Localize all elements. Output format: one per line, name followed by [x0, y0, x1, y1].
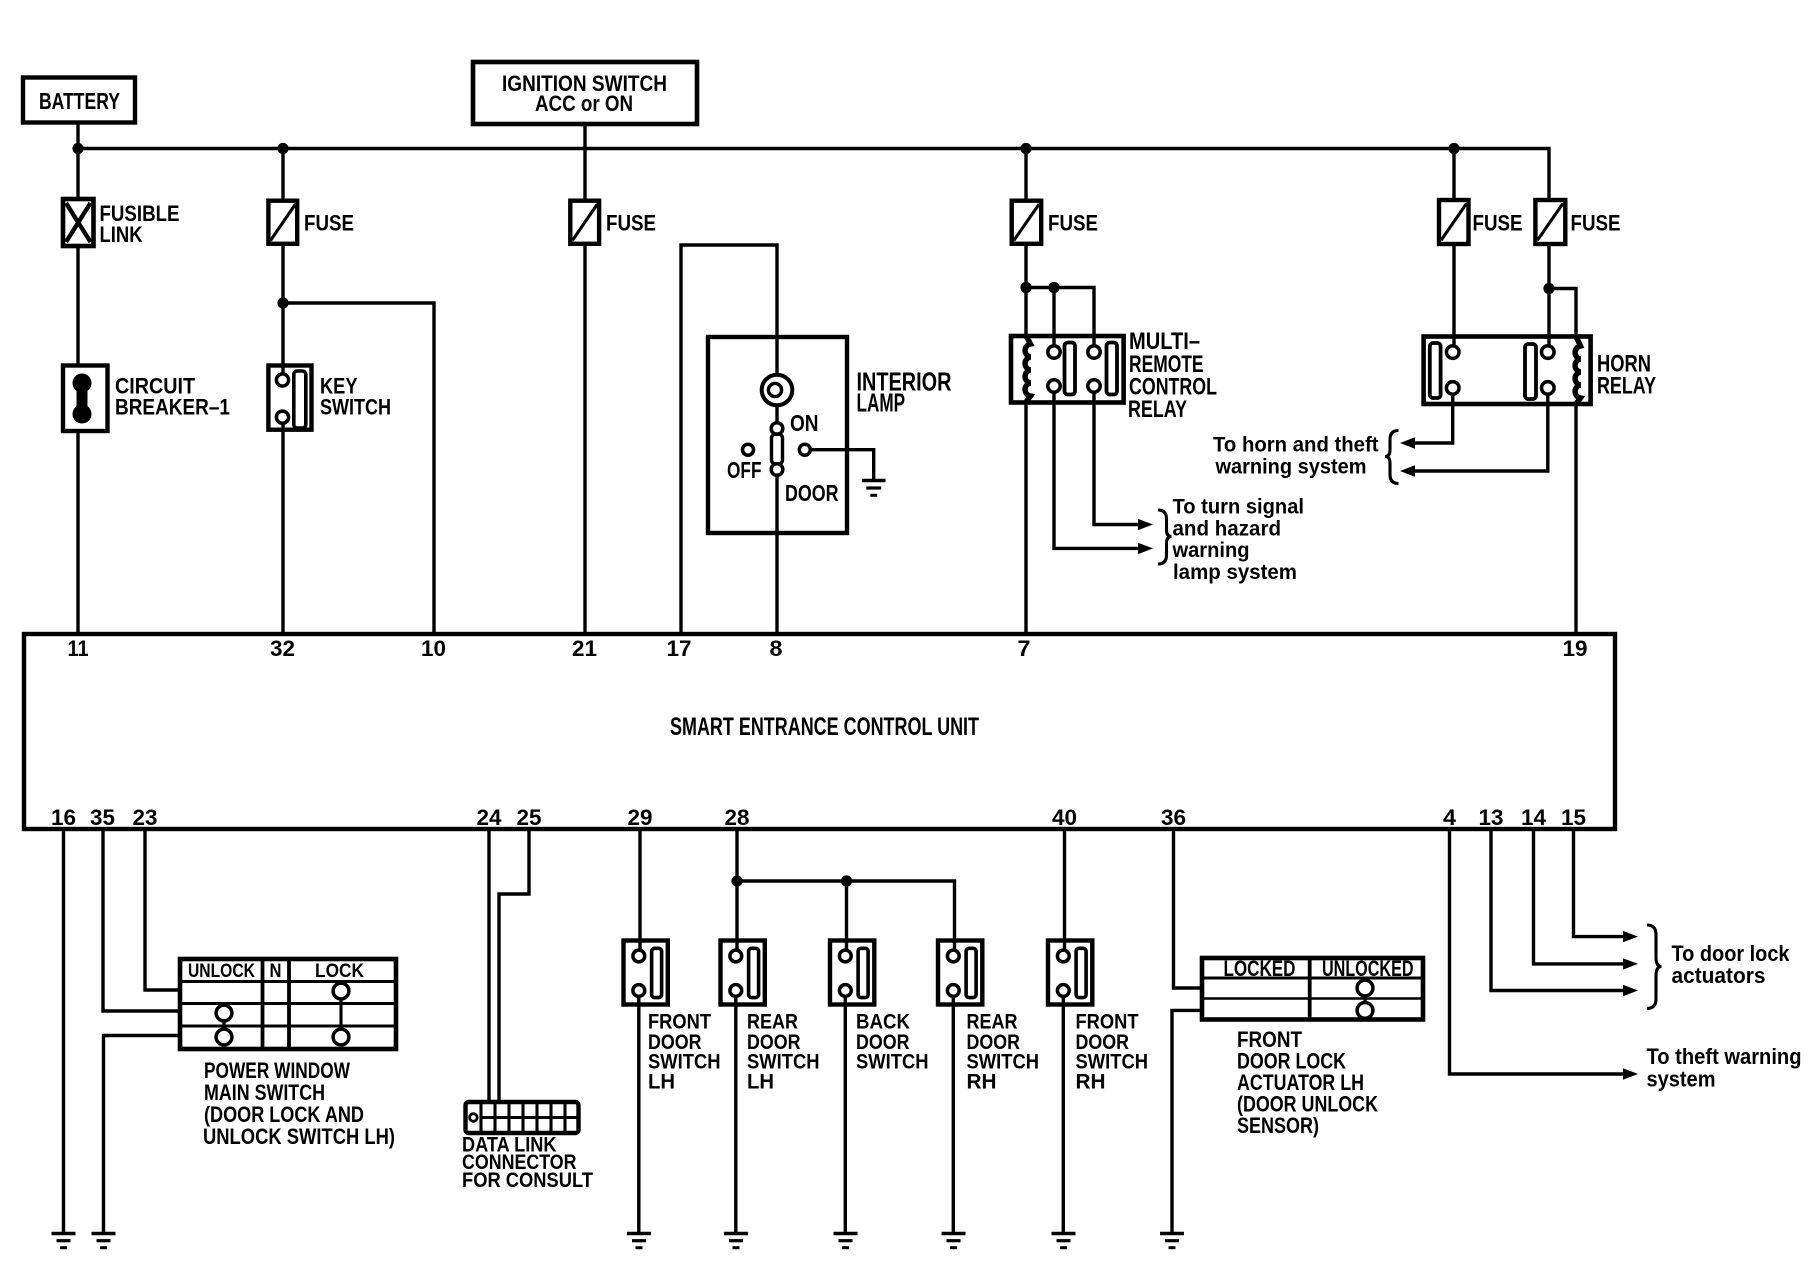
svg-text:UNLOCKED: UNLOCKED: [1322, 956, 1414, 981]
wire pin 24 to data link connector: [487, 829, 490, 1103]
label to horn and theft: [1213, 434, 1379, 479]
lamp DOOR contact: [785, 444, 839, 506]
rear door switch LH: [721, 941, 765, 1005]
multi-remote control relay: [1011, 328, 1217, 423]
arrow turn signal upper: [1138, 519, 1153, 530]
wire relay coil to pin 7: [1024, 402, 1027, 636]
svg-text:BREAKER–1: BREAKER–1: [115, 395, 230, 420]
svg-text:RH: RH: [967, 1071, 997, 1094]
brace horn warning: [1385, 431, 1399, 484]
svg-text:10: 10: [421, 636, 446, 661]
svg-text:FUSE: FUSE: [1048, 211, 1098, 236]
wire bus to fuse5: [1452, 149, 1455, 202]
wire circuit breaker to pin 11: [76, 431, 79, 636]
wire pin 17 loop to interior lamp: [681, 245, 777, 636]
label to theft warning system: [1647, 1044, 1802, 1092]
svg-text:system: system: [1647, 1067, 1716, 1092]
node fuse5 junction: [1448, 143, 1459, 154]
svg-text:32: 32: [270, 636, 295, 661]
svg-text:FUSE: FUSE: [304, 211, 354, 236]
wire fuse6 to horn relay: [1547, 244, 1550, 347]
svg-text:warning: warning: [1172, 539, 1250, 562]
wire pin 13 with arrow: [1491, 829, 1624, 991]
svg-text:LAMP: LAMP: [857, 388, 906, 418]
wire relay output 2 with arrow: [1094, 392, 1140, 525]
arrow theft warning: [1623, 1068, 1638, 1079]
svg-text:SMART ENTRANCE CONTROL UNIT: SMART ENTRANCE CONTROL UNIT: [670, 713, 979, 741]
ignition switch: [473, 62, 697, 124]
node relay branch 2: [1048, 282, 1059, 293]
wire bus to fuse4: [1024, 149, 1027, 202]
node key switch branch: [277, 297, 288, 308]
fuse F3: [570, 201, 656, 244]
data link connector for consult: [466, 1102, 579, 1133]
lamp bulb: [762, 375, 793, 406]
wire back door switch to ground: [844, 996, 847, 1233]
svg-text:RH: RH: [1076, 1071, 1106, 1094]
wire bulb to lamp switch: [775, 405, 778, 424]
svg-text:24: 24: [477, 805, 503, 830]
node door switch bus 1: [731, 875, 742, 886]
svg-text:4: 4: [1443, 805, 1457, 830]
wire horn relay output 2 with arrow: [1414, 394, 1548, 471]
wire bus to fuse2: [281, 149, 284, 202]
svg-text:FOR CONSULT: FOR CONSULT: [462, 1169, 593, 1192]
svg-text:To horn and theft: To horn and theft: [1213, 434, 1379, 457]
arrow horn lower: [1400, 465, 1415, 476]
svg-text:25: 25: [517, 805, 542, 830]
svg-text:FUSE: FUSE: [1571, 211, 1621, 236]
wire pin 29 to front door switch LH: [638, 829, 641, 951]
wire actuator row 2 to ground: [1172, 1010, 1203, 1233]
svg-text:28: 28: [725, 805, 750, 830]
svg-text:RELAY: RELAY: [1597, 373, 1656, 400]
battery: [23, 78, 135, 123]
wire horn relay output 1 with arrow: [1414, 394, 1453, 443]
svg-text:BATTERY: BATTERY: [39, 88, 120, 114]
brace door lock actuators: [1647, 925, 1662, 1008]
arrow turn signal lower: [1138, 543, 1153, 554]
arrow door lock 2: [1623, 958, 1638, 969]
wire pin 25 to data link connector: [499, 829, 529, 1103]
svg-text:LINK: LINK: [100, 222, 143, 247]
svg-text:and hazard: and hazard: [1173, 518, 1282, 541]
svg-text:35: 35: [90, 805, 115, 830]
svg-text:19: 19: [1563, 636, 1588, 661]
arrow door lock 1: [1623, 931, 1638, 942]
wire branch to pin 10: [283, 303, 434, 636]
label front door switch LH: [648, 1011, 721, 1094]
power window main switch: [180, 959, 396, 1049]
label power window main switch: [203, 1058, 395, 1149]
wire pin 36 to actuator row 1: [1174, 829, 1204, 988]
wire relay contact feed 2: [1052, 288, 1055, 348]
wire pin 40 to front door switch RH: [1063, 829, 1066, 951]
interior lamp: [708, 337, 952, 533]
wire battery to bus: [76, 123, 79, 201]
front door switch RH: [1048, 941, 1092, 1005]
label front door lock actuator: [1237, 1027, 1378, 1138]
wire front door switch LH to ground: [637, 996, 640, 1233]
wire pin 35 to switch row 2: [103, 829, 181, 1011]
wire door switch bus: [737, 881, 955, 951]
wire relay contact feeds: [1026, 288, 1094, 348]
wire ignition switch to fuse3: [583, 124, 586, 202]
wire fuse2 to key switch: [281, 244, 284, 375]
fusible link: [63, 199, 180, 247]
front door switch LH: [624, 941, 668, 1005]
wire switch row 3 to ground: [104, 1036, 182, 1234]
label front door switch RH: [1076, 1011, 1149, 1094]
ground front door switch LH: [627, 1234, 651, 1248]
svg-text:UNLOCK SWITCH LH): UNLOCK SWITCH LH): [203, 1124, 395, 1149]
node fuse2 junction: [277, 143, 288, 154]
svg-text:14: 14: [1521, 805, 1547, 830]
wire horn coil feed: [1549, 289, 1576, 339]
fuse F2: [268, 201, 354, 244]
wire fuse4 to relay coil: [1024, 244, 1027, 338]
wire pin 14 with arrow: [1534, 829, 1625, 964]
wire pin 4 with arrow: [1450, 829, 1625, 1074]
node door switch bus 2: [841, 875, 852, 886]
ground back door switch: [834, 1234, 858, 1248]
ground pin 16: [52, 1234, 76, 1248]
front door lock actuator LH: [1202, 956, 1423, 1020]
wire pin 28 to rear door switch LH: [735, 829, 738, 951]
svg-text:RELAY: RELAY: [1128, 396, 1187, 423]
rear door switch RH: [938, 941, 982, 1005]
svg-text:N: N: [270, 961, 282, 982]
svg-text:36: 36: [1161, 805, 1186, 830]
ground power window switch: [92, 1234, 116, 1248]
svg-text:FUSE: FUSE: [1473, 211, 1523, 236]
label back door switch: [856, 1011, 929, 1074]
node relay branch 1: [1020, 282, 1031, 293]
wire fusible link to circuit breaker: [76, 246, 79, 366]
svg-text:UNLOCK: UNLOCK: [188, 961, 255, 982]
wire door contact to ground: [811, 450, 874, 480]
wire fuse3 to pin 21: [583, 244, 586, 636]
svg-text:LH: LH: [747, 1071, 774, 1094]
arrow door lock 3: [1623, 985, 1638, 996]
svg-text:40: 40: [1052, 805, 1077, 830]
horn relay: [1424, 337, 1656, 405]
svg-text:ACC or ON: ACC or ON: [535, 91, 633, 116]
wire rear door switch RH to ground: [952, 996, 955, 1233]
label to turn signal: [1172, 496, 1304, 585]
label data link connector: [462, 1134, 593, 1193]
svg-text:To theft warning: To theft warning: [1647, 1044, 1802, 1069]
svg-text:actuators: actuators: [1672, 963, 1766, 988]
svg-text:21: 21: [572, 636, 597, 661]
svg-text:warning system: warning system: [1215, 456, 1367, 479]
wire pin 23 to switch row 1: [145, 829, 181, 990]
svg-text:ON: ON: [790, 410, 819, 436]
svg-text:17: 17: [667, 636, 692, 661]
wire branch to back door switch: [845, 881, 848, 951]
svg-text:8: 8: [770, 636, 783, 661]
svg-text:11: 11: [68, 636, 89, 661]
node horn coil branch: [1543, 283, 1554, 294]
svg-text:OFF: OFF: [727, 457, 762, 483]
arrow horn upper: [1400, 437, 1415, 448]
fuse F4: [1012, 201, 1098, 244]
fuse F5: [1439, 200, 1523, 244]
fuse F6: [1535, 200, 1620, 244]
svg-text:13: 13: [1479, 805, 1504, 830]
ground rear door switch RH: [942, 1234, 966, 1248]
svg-text:15: 15: [1561, 805, 1586, 830]
label rear door switch RH: [967, 1011, 1040, 1094]
ground rear door switch LH: [724, 1234, 748, 1248]
circuit breaker CB-1: [63, 366, 230, 432]
wire lamp switch to pin 8: [775, 475, 778, 636]
svg-text:LOCKED: LOCKED: [1224, 956, 1296, 981]
ground interior lamp: [862, 481, 886, 496]
wire front door switch RH to ground: [1062, 996, 1065, 1233]
wire pin 15 with arrow: [1574, 829, 1625, 937]
back door switch: [830, 941, 874, 1005]
wire rear door switch LH to ground: [734, 996, 737, 1233]
svg-text:lamp system: lamp system: [1173, 561, 1297, 584]
wire horn coil to pin 19: [1574, 404, 1577, 636]
svg-text:SENSOR): SENSOR): [1237, 1113, 1319, 1138]
smart entrance control unit U1: [24, 634, 1615, 829]
wire main supply bus: [78, 149, 1549, 202]
svg-text:LOCK: LOCK: [315, 961, 364, 982]
svg-text:To turn signal: To turn signal: [1173, 496, 1305, 519]
wire key switch to pin 32: [281, 423, 284, 636]
svg-text:29: 29: [628, 805, 653, 830]
svg-text:DOOR: DOOR: [785, 480, 839, 506]
svg-text:LH: LH: [648, 1071, 675, 1094]
wire fuse5 to horn relay: [1452, 244, 1455, 347]
ground door lock actuator: [1160, 1234, 1184, 1248]
label rear door switch LH: [747, 1011, 820, 1094]
lamp OFF contact: [727, 444, 762, 483]
svg-text:SWITCH: SWITCH: [856, 1051, 929, 1074]
node fuse4 junction: [1020, 143, 1031, 154]
key switch: [268, 366, 391, 430]
wire pin 16 to ground: [62, 829, 65, 1233]
wire relay output 1 with arrow: [1054, 392, 1140, 548]
ground front door switch RH: [1052, 1234, 1076, 1248]
svg-text:23: 23: [133, 805, 158, 830]
svg-text:16: 16: [51, 805, 76, 830]
svg-text:SWITCH: SWITCH: [320, 395, 391, 420]
label to door lock actuators: [1672, 941, 1791, 988]
node battery junction: [72, 143, 83, 154]
svg-text:FUSE: FUSE: [606, 211, 656, 236]
lamp switch: [771, 410, 818, 475]
svg-text:7: 7: [1018, 636, 1031, 661]
brace turn signal: [1158, 510, 1172, 564]
